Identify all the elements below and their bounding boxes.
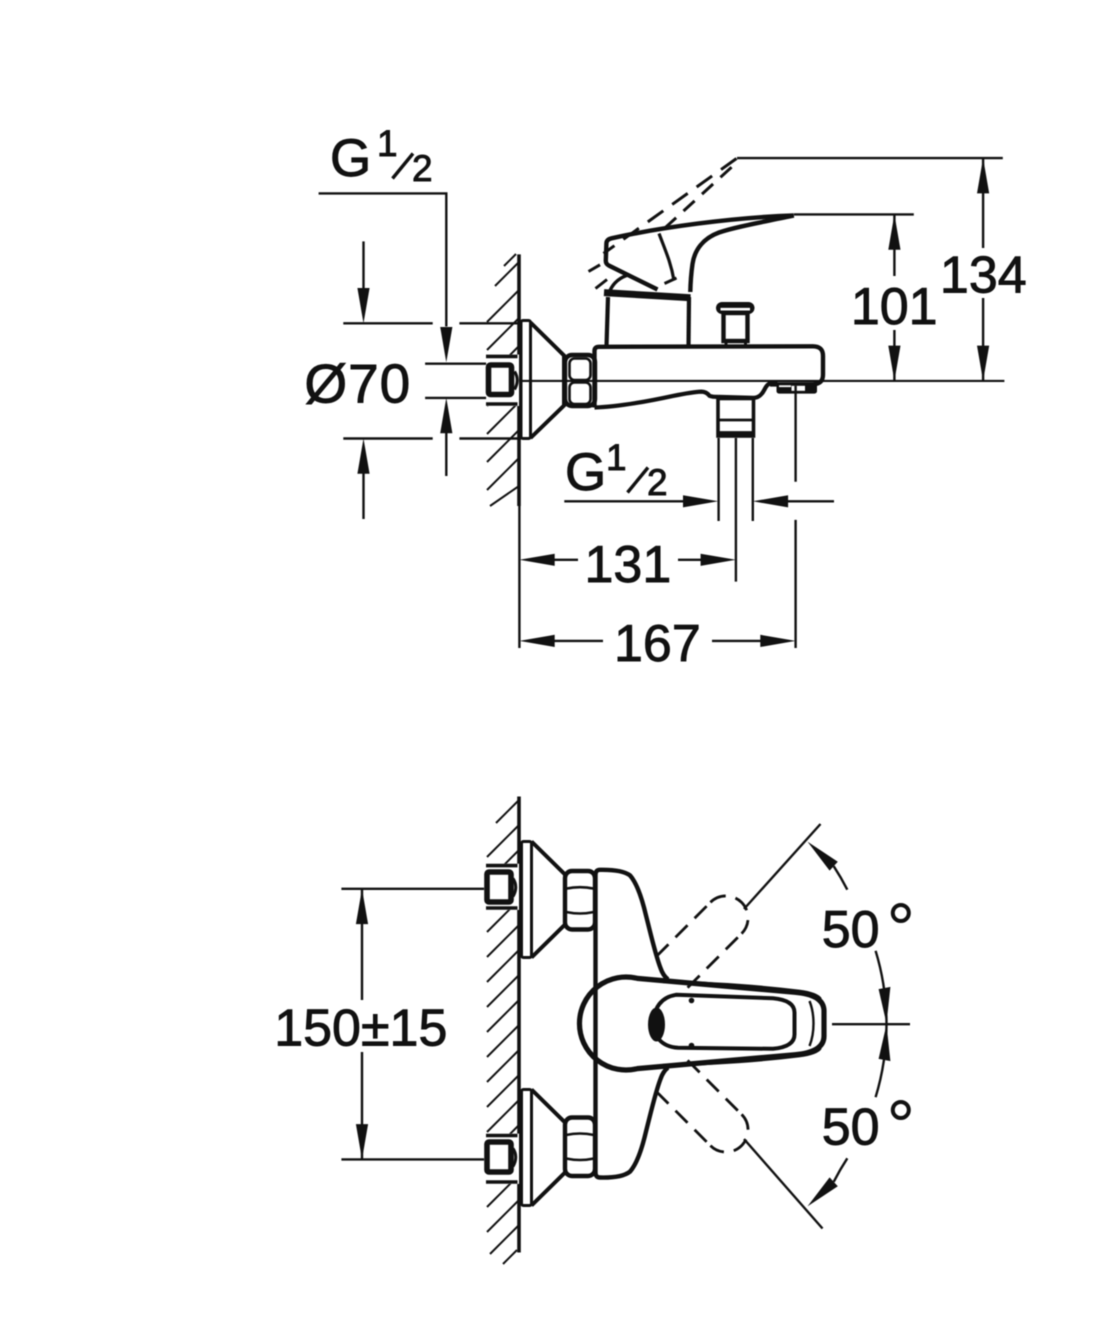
body underside step (right) bbox=[718, 383, 778, 398]
167 dimension bbox=[519, 386, 795, 673]
shower outlet block bbox=[718, 399, 754, 437]
50° label upper bbox=[822, 901, 909, 959]
wall hatching (bottom view) bbox=[487, 800, 519, 1264]
Ø70 boundary lines bbox=[343, 323, 521, 438]
150±15 dimension bbox=[274, 889, 484, 1160]
angular arc upper bbox=[834, 866, 848, 890]
mixer body (top view) bbox=[595, 346, 824, 407]
lever handle (front view) bbox=[579, 977, 824, 1070]
svg-text:G: G bbox=[330, 129, 371, 188]
svg-text:1: 1 bbox=[606, 437, 627, 478]
arc arrowhead at +50° ray bbox=[808, 842, 838, 871]
mixer body (front view) bbox=[596, 870, 669, 1178]
wall square fitting (top view) bbox=[484, 355, 519, 407]
G 1/2 outlet dimension bbox=[564, 495, 834, 507]
shower hose lines bbox=[719, 438, 753, 582]
escutcheon cone (top view) bbox=[531, 323, 565, 439]
escutcheon plate (top view) bbox=[521, 321, 531, 439]
spout outlet ring bbox=[777, 384, 818, 394]
svg-text:50: 50 bbox=[822, 901, 880, 959]
50° label lower bbox=[822, 1099, 909, 1157]
angular arc lower bbox=[876, 1024, 887, 1097]
horizontal centerline (right) bbox=[832, 1023, 910, 1025]
101 dimension bbox=[794, 214, 938, 381]
svg-text:2: 2 bbox=[412, 148, 433, 189]
union nut (top view) bbox=[565, 355, 595, 406]
raised handle ghost -50° (dashed) bbox=[656, 1060, 748, 1152]
G 1/2 leader arrow (down to thread) bbox=[440, 327, 452, 362]
upper wall square fitting bbox=[484, 864, 519, 910]
wall (side view) bbox=[517, 254, 521, 506]
G 1/2 label (top-left) bbox=[330, 123, 433, 189]
G 1/2 leader line bbox=[319, 193, 447, 326]
raised handle ghost +50° (dashed) bbox=[656, 896, 748, 988]
center axis line bbox=[519, 380, 1004, 382]
arc arrowhead at -50° ray bbox=[808, 1177, 838, 1206]
svg-text:2: 2 bbox=[647, 462, 668, 503]
upper union nut bbox=[565, 871, 595, 930]
lower escutcheon plate bbox=[522, 1090, 532, 1206]
wall hatching (top view) bbox=[487, 254, 519, 506]
lever handle (top view) bbox=[606, 216, 794, 293]
svg-text:G: G bbox=[565, 443, 606, 502]
diverter knob bbox=[716, 302, 755, 347]
svg-text:167: 167 bbox=[614, 615, 701, 673]
lower wall square fitting bbox=[484, 1134, 519, 1184]
G 1/2 label (outlet) bbox=[565, 437, 668, 503]
-50° ray bbox=[744, 1139, 823, 1229]
134 dimension bbox=[737, 158, 1027, 381]
svg-text:1: 1 bbox=[377, 123, 398, 164]
spout (top view) bbox=[595, 392, 719, 408]
131 dimension bbox=[519, 506, 736, 648]
cartridge block bbox=[607, 297, 690, 346]
svg-text:50: 50 bbox=[822, 1099, 880, 1157]
lower union nut bbox=[565, 1118, 595, 1177]
upper escutcheon cone bbox=[532, 842, 566, 958]
upper escutcheon plate bbox=[522, 842, 532, 958]
svg-text:150±15: 150±15 bbox=[274, 1000, 447, 1058]
svg-text:131: 131 bbox=[585, 536, 672, 594]
svg-text:Ø70: Ø70 bbox=[304, 353, 411, 415]
thread extension lines bbox=[425, 364, 486, 398]
+50° ray bbox=[744, 824, 821, 909]
svg-text:134: 134 bbox=[940, 247, 1027, 305]
cartridge cap band bbox=[604, 293, 691, 298]
Ø70 arrows bbox=[357, 241, 369, 519]
thread arrow (up) bbox=[440, 398, 452, 476]
bowtie arrows at centerline bbox=[879, 987, 891, 1024]
lower escutcheon cone bbox=[532, 1090, 566, 1206]
wall (front view) bbox=[517, 797, 521, 1253]
svg-text:101: 101 bbox=[851, 278, 938, 336]
raised handle (dashed ghost, top view) bbox=[589, 159, 737, 289]
